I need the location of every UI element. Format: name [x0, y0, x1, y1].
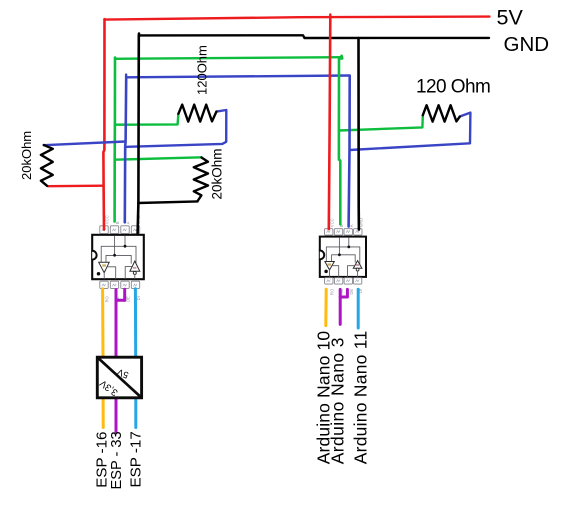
svg-text:120Ohm: 120Ohm	[195, 45, 210, 95]
svg-text:VCC: VCC	[105, 215, 110, 224]
svg-text:DE: DE	[126, 296, 131, 302]
svg-text:GND: GND	[504, 33, 550, 56]
svg-text:DE: DE	[349, 289, 354, 295]
svg-text:120 Ohm: 120 Ohm	[416, 77, 490, 98]
svg-text:ESP -16: ESP -16	[94, 432, 111, 488]
svg-text:20kOhm: 20kOhm	[19, 131, 34, 180]
svg-text:5V: 5V	[497, 6, 524, 30]
svg-text:Arduino Nano 3: Arduino Nano 3	[328, 337, 348, 464]
svg-text:RO: RO	[105, 295, 110, 302]
svg-text:ESP -17: ESP -17	[128, 431, 145, 487]
svg-text:A: A	[126, 221, 131, 224]
svg-text:Arduino Nano 11: Arduino Nano 11	[351, 331, 371, 465]
svg-text:RO: RO	[329, 288, 334, 295]
svg-text:20kOhm: 20kOhm	[210, 148, 225, 199]
svg-text:ESP - 33: ESP - 33	[109, 431, 125, 489]
